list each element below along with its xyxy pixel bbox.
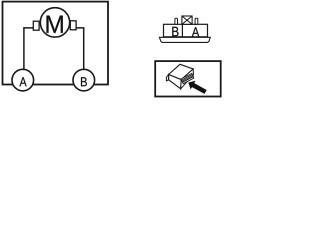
connector J1 pin B label [172,27,178,37]
motor brush terminal right [70,21,76,30]
terminal A label [20,77,27,86]
wire: outer circuit box frame [3,2,109,85]
wire: left segment from motor brush down to terminal A [24,28,34,72]
connector J1 base flange [159,37,210,42]
connector J1 pin A label [192,27,200,36]
motor brush terminal left [33,21,39,30]
terminal B label [81,77,87,86]
connector J1 right tab [195,18,198,24]
wire: right segment from motor brush down to terminal B [76,28,84,72]
legend pointer arrow [188,81,206,94]
connector J1 left tab [175,18,178,24]
legend connector icon hatched end face [181,69,194,89]
legend connector icon front face [169,75,182,89]
motor M1 label M [47,16,63,33]
legend connector icon top face [169,64,194,79]
connector J1 lock tab crossed box [182,16,192,24]
legend box frame [155,61,221,96]
connector J1 cavity divider [181,24,183,37]
terminal A circle [12,69,34,91]
connector J1 body [164,24,208,37]
motor M1 circle [40,8,69,37]
terminal B circle [73,69,95,91]
legend connector icon left end cap [166,75,168,81]
